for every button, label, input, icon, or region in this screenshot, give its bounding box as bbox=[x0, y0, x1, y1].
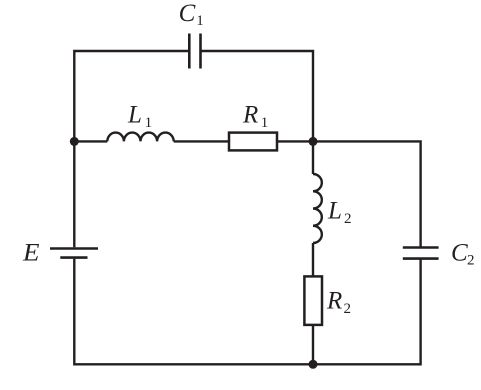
svg-text:2: 2 bbox=[344, 301, 352, 317]
bottom node junction dot bbox=[309, 360, 318, 369]
svg-text:R: R bbox=[326, 288, 342, 315]
wire node B to right rail bbox=[313, 141, 421, 247]
wire left rail lower, bottom rail, right rail lower bbox=[74, 259, 420, 365]
svg-text:L: L bbox=[127, 102, 142, 129]
svg-text:R: R bbox=[242, 102, 258, 129]
svg-text:1: 1 bbox=[261, 115, 269, 131]
wire top rail right of C1 down to node B bbox=[201, 51, 314, 141]
capacitor C1 bbox=[189, 34, 200, 69]
battery E bbox=[50, 249, 98, 258]
svg-text:2: 2 bbox=[344, 211, 352, 227]
svg-text:L: L bbox=[327, 198, 342, 225]
capacitor C2 bbox=[403, 248, 439, 259]
wire L2 to R2 bbox=[312, 243, 314, 276]
svg-text:1: 1 bbox=[145, 115, 153, 131]
node B junction dot bbox=[309, 137, 318, 146]
svg-text:1: 1 bbox=[196, 13, 204, 29]
wire L1 to R1 bbox=[174, 140, 229, 142]
svg-text:C: C bbox=[451, 240, 468, 267]
svg-text:C: C bbox=[179, 0, 196, 27]
svg-text:E: E bbox=[22, 240, 40, 267]
inductor L2 bbox=[313, 174, 322, 243]
resistor R2 bbox=[304, 276, 322, 325]
resistor R1 bbox=[229, 133, 277, 151]
wire R2 to bottom node bbox=[312, 325, 314, 364]
svg-text:2: 2 bbox=[467, 253, 475, 269]
wire node A to L1 bbox=[74, 140, 107, 142]
inductor L1 bbox=[107, 133, 173, 142]
wire node B to L2 bbox=[312, 141, 314, 174]
wire R1 to node B bbox=[277, 140, 313, 142]
node A junction dot bbox=[70, 137, 79, 146]
wire top rail left of C1, down left rail to battery bbox=[74, 51, 189, 247]
